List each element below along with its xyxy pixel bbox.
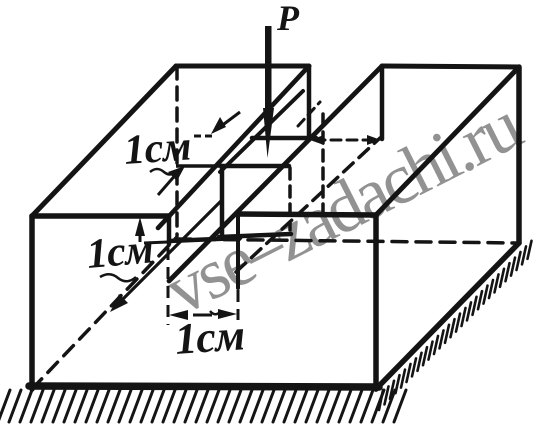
ground hatching below bottom edge bbox=[0, 390, 406, 422]
bottom dimension line with outward arrows bbox=[169, 309, 237, 320]
svg-text:P: P bbox=[276, 0, 300, 38]
block back top edge right portion bbox=[382, 66, 519, 67]
block back bottom edge (hidden, dashed) bbox=[176, 239, 517, 243]
block bottom right receding edge bbox=[376, 243, 519, 389]
top dimension dashes near label bbox=[194, 135, 214, 138]
block back left vertical edge (hidden, dashed) bbox=[175, 66, 179, 236]
cube back right vertical edge (hidden, dashed) bbox=[321, 114, 325, 222]
block bottom left receding edge (hidden, dashed) bbox=[32, 238, 176, 389]
cube bottom front edge bbox=[219, 234, 291, 237]
slot left wall back vertical edge bbox=[307, 66, 312, 137]
cube top-left edge line (long parallel stroke) bbox=[220, 91, 303, 172]
slot right wall back vertical edge bbox=[380, 66, 385, 139]
slot right wall front vertical edge + leader bbox=[236, 214, 240, 288]
slot floor front edge bbox=[169, 238, 240, 241]
block back right vertical edge bbox=[516, 67, 522, 243]
slot left wall front vertical edge bbox=[167, 216, 172, 244]
watermark vse-zadachi.ru bbox=[152, 85, 533, 331]
block top face left receding edge bbox=[32, 66, 176, 216]
slot right wall top edge (long stroke through cube diagonal) bbox=[169, 66, 382, 281]
cube hidden top-left line continuation (dashed) bbox=[298, 102, 320, 126]
bottom dimension left leader (dashed) bbox=[167, 248, 170, 325]
block front face left vertical edge bbox=[29, 216, 35, 389]
block front face right vertical edge bbox=[373, 215, 379, 389]
cube front left vertical edge bbox=[220, 166, 225, 234]
block back top edge left portion bbox=[176, 64, 309, 69]
block front top edge left of slot bbox=[32, 213, 169, 219]
left dimension leader to slot floor corner bbox=[144, 242, 168, 243]
cube top back edge bbox=[252, 136, 316, 141]
block front face bottom edge (ground line) bbox=[29, 386, 379, 387]
slot back opening width line with arrows (dashed) bbox=[310, 135, 381, 145]
force P arrow bbox=[263, 26, 274, 158]
slot floor right edge (hidden, dashed) bbox=[236, 138, 380, 272]
svg-text:vse–zadachi.ru: vse–zadachi.ru bbox=[152, 85, 533, 331]
left dimension up arrow bbox=[135, 217, 145, 242]
cube top front edge bbox=[221, 164, 289, 169]
top dimension arrow pointing down-left bbox=[211, 112, 240, 134]
block front top edge right of slot bbox=[238, 214, 376, 215]
block top face right edge bbox=[376, 67, 519, 215]
top dimension squiggle under label bbox=[150, 169, 179, 174]
slot left wall top edge bbox=[158, 66, 309, 228]
top dimension leader line bbox=[176, 164, 221, 168]
top dimension arrow pointing up-right bbox=[158, 166, 185, 195]
left dimension 45-degree arrow stroke (slot depth pointer) bbox=[100, 201, 221, 312]
ground hatching along bottom right receding edge bbox=[379, 241, 532, 410]
cube front right vertical edge (dashed) bbox=[288, 168, 292, 230]
bottom dimension right leader (dashed) bbox=[237, 290, 240, 320]
